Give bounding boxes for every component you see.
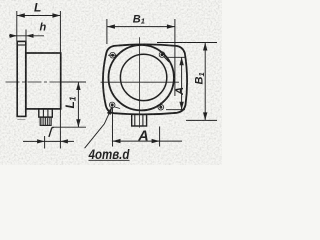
flange inner ledge bottom (faint) — [17, 118, 25, 120]
svg-text:А: А — [137, 128, 148, 144]
bolt hole bottom-right — [158, 103, 164, 110]
dial inner circle — [120, 54, 166, 100]
vertical centerline — [138, 37, 140, 127]
dimension B1 (width, top) — [107, 19, 175, 96]
bolt hole top-left — [108, 52, 118, 58]
svg-text:L: L — [34, 0, 41, 14]
svg-text:4отв.d: 4отв.d — [88, 147, 130, 162]
flange inner ledge top — [17, 44, 26, 46]
svg-text:А: А — [174, 87, 186, 96]
note underline — [89, 159, 130, 161]
nut facet line 1 — [42, 109, 44, 117]
bezel outer circle — [109, 45, 174, 110]
flange plate (back square plate, side silhouette) — [17, 41, 26, 116]
nut facet lines (front) — [134, 114, 136, 126]
thread hatching — [42, 117, 49, 125]
label l — [49, 127, 54, 136]
housing (square case with bulged sides) — [103, 44, 187, 114]
centerline (horizontal axis of gauge, left view) — [6, 81, 87, 83]
gauge body drum (side) — [26, 53, 61, 109]
dimension B1 (height, far right) — [157, 43, 217, 121]
dimension l (stub width, bottom) — [23, 109, 74, 149]
dimension h (flange thickness) — [9, 30, 44, 46]
dimension A (hole spacing, vertical right) — [166, 57, 185, 109]
scan noise texture — [0, 0, 222, 165]
nut facet line 2 — [47, 109, 49, 117]
front hex nut below housing — [132, 114, 147, 126]
dimension A (hole spacing, bottom) — [113, 108, 183, 147]
connector hex nut (side) — [39, 109, 53, 117]
dimension L1 (centre to stub end) — [53, 82, 86, 127]
horizontal centerline — [101, 81, 180, 83]
threaded stub (side, hatched) — [40, 117, 51, 125]
bolt hole top-right — [159, 52, 169, 62]
leader line to hole (4 otv. d) — [85, 107, 113, 149]
dimension L (overall depth, top) — [17, 11, 61, 53]
bolt hole bottom-left — [109, 102, 120, 108]
svg-text:h: h — [40, 22, 47, 34]
